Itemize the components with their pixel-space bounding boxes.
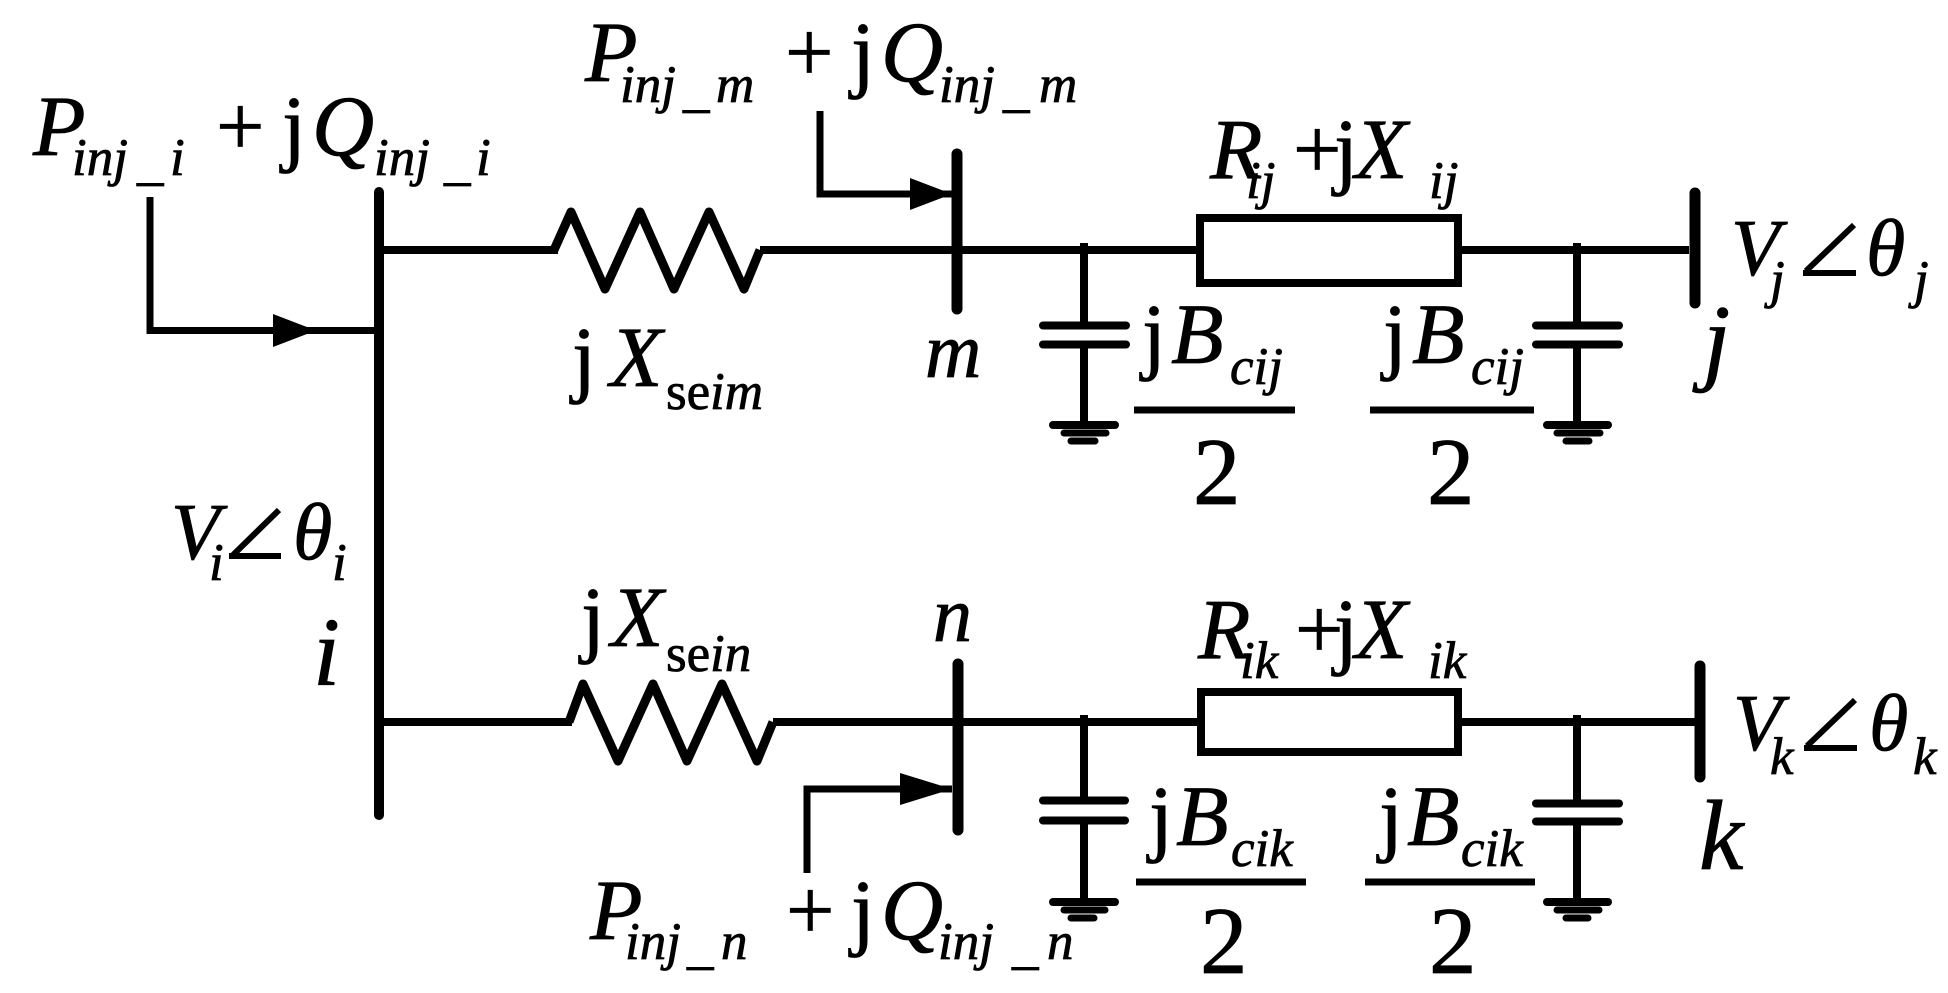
svg-text:Q: Q <box>312 78 374 174</box>
svg-text:_: _ <box>1011 917 1039 975</box>
capacitor jBcik/2 right (shunt, bottom branch) <box>1536 715 1619 898</box>
svg-text:n: n <box>721 913 748 971</box>
svg-text:X: X <box>1352 101 1411 197</box>
injection arrow into bus i (Pinj_i) <box>150 197 374 347</box>
label n (bus n) <box>933 571 972 658</box>
resistor jXsein (series reactance, bottom branch zigzag) <box>569 684 773 761</box>
svg-text:i: i <box>209 534 224 592</box>
svg-text:inj: inj <box>938 913 994 971</box>
svg-text:_: _ <box>1002 60 1030 118</box>
label j (bus j) <box>1692 286 1730 394</box>
wire bus i to top resistor <box>379 246 558 254</box>
svg-text:inj: inj <box>72 129 128 187</box>
label Rik+jXik <box>1197 581 1468 690</box>
label jBcik/2 right fraction <box>1365 768 1535 993</box>
label Vj angle theta j <box>1731 205 1929 309</box>
svg-text:_: _ <box>686 917 714 975</box>
injection arrow into bus m (Pinj_m) <box>820 111 952 210</box>
svg-text:θ: θ <box>1869 680 1908 768</box>
svg-text:in: in <box>710 625 751 683</box>
svg-text:k: k <box>1913 728 1938 786</box>
line impedance box Rij+jXij <box>1200 218 1458 283</box>
svg-text:B: B <box>1171 286 1224 382</box>
svg-text:X: X <box>607 309 666 405</box>
svg-text:ik: ik <box>1240 632 1280 690</box>
ground (top-right shunt capacitor) <box>1547 425 1608 441</box>
svg-text:cik: cik <box>1461 820 1524 878</box>
svg-text:B: B <box>1176 768 1229 864</box>
svg-text:cik: cik <box>1231 820 1294 878</box>
svg-text:j: j <box>1380 286 1407 382</box>
svg-text:m: m <box>716 56 754 114</box>
label Pinj_i + jQinj_i <box>32 78 491 191</box>
svg-text:2: 2 <box>1200 888 1248 993</box>
label jXseim <box>569 309 763 421</box>
svg-text:j: j <box>1376 768 1403 864</box>
svg-text:+: + <box>216 78 265 174</box>
ground (top-left shunt capacitor) <box>1053 425 1115 441</box>
svg-text:ik: ik <box>1428 632 1468 690</box>
svg-text:cij: cij <box>1230 338 1283 396</box>
svg-text:Q: Q <box>881 862 943 958</box>
bus n (vertical bar) <box>953 664 964 830</box>
bus m (vertical bar) <box>952 154 963 309</box>
svg-text:j: j <box>848 862 875 958</box>
svg-text:2: 2 <box>1427 419 1475 525</box>
svg-text:j: j <box>848 4 875 100</box>
svg-text:k: k <box>1699 780 1745 891</box>
ground (bottom-left shunt capacitor) <box>1053 902 1115 918</box>
bus j (vertical bar) <box>1690 193 1701 303</box>
svg-text:j: j <box>1139 286 1166 382</box>
label Rij+jXij <box>1209 101 1458 210</box>
svg-text:_: _ <box>443 133 471 191</box>
svg-text:inj: inj <box>374 129 430 187</box>
wire resistor to box Rij (through node m and shunt node) <box>760 246 1200 254</box>
capacitor jBcik/2 left (shunt, bottom branch) <box>1043 715 1125 898</box>
svg-text:B: B <box>1407 768 1460 864</box>
svg-text:se: se <box>666 363 710 421</box>
svg-text:i: i <box>313 599 340 706</box>
svg-text:ij: ij <box>1429 152 1458 210</box>
svg-text:j: j <box>1331 581 1358 677</box>
svg-text:n: n <box>933 571 972 658</box>
wire box Rik to bus k (through shunt node) <box>1458 718 1695 726</box>
label Pinj_m + jQinj_m <box>584 4 1077 118</box>
svg-text:inj: inj <box>625 913 681 971</box>
svg-text:j: j <box>279 78 306 174</box>
label Vi angle theta i <box>171 489 347 592</box>
wire resistor to box Rik (through node n and shunt node) <box>773 718 1201 726</box>
line impedance box Rik+jXik <box>1201 692 1458 752</box>
svg-text:X: X <box>1352 581 1411 677</box>
resistor jXseim (series reactance, top branch zigzag) <box>554 212 760 289</box>
svg-text:ij: ij <box>1246 152 1275 210</box>
svg-text:B: B <box>1412 286 1465 382</box>
label jBcij/2 left fraction <box>1134 286 1295 525</box>
label jBcij/2 right fraction <box>1370 286 1534 525</box>
svg-text:+: + <box>785 4 834 100</box>
capacitor jBcij/2 left (shunt, top branch) <box>1043 243 1126 421</box>
label jXsein <box>578 569 751 683</box>
svg-text:m: m <box>925 307 981 394</box>
svg-text:j: j <box>1146 768 1173 864</box>
svg-text:θ: θ <box>1866 205 1905 293</box>
wire box Rij to bus j (through shunt node) <box>1458 246 1689 254</box>
label jBcik/2 left fraction <box>1136 768 1306 993</box>
svg-text:j: j <box>1331 101 1358 197</box>
ground (bottom-right shunt capacitor) <box>1547 902 1608 918</box>
svg-text:i: i <box>170 129 185 187</box>
svg-text:_: _ <box>136 133 164 191</box>
svg-text:i: i <box>332 534 347 592</box>
svg-text:inj: inj <box>939 56 995 114</box>
svg-text:2: 2 <box>1429 888 1477 993</box>
svg-text:j: j <box>569 309 596 405</box>
svg-text:_: _ <box>682 60 710 118</box>
svg-text:θ: θ <box>293 489 332 577</box>
svg-text:k: k <box>1770 728 1795 786</box>
label Vk angle theta k <box>1733 680 1938 786</box>
bus i (vertical bus bar) <box>374 192 384 815</box>
label m (bus m) <box>925 307 981 394</box>
capacitor jBcij/2 right (shunt, top branch) <box>1536 243 1619 421</box>
svg-text:inj: inj <box>620 56 676 114</box>
injection arrow into bus n (Pinj_n) <box>807 773 952 873</box>
label Pinj_n + jQinj_n <box>589 862 1074 975</box>
svg-text:2: 2 <box>1193 419 1241 525</box>
bus k (vertical bar) <box>1695 666 1706 777</box>
svg-text:X: X <box>608 569 667 665</box>
svg-text:se: se <box>666 625 710 683</box>
svg-text:i: i <box>476 129 491 187</box>
label k (bus k) <box>1699 780 1745 891</box>
svg-text:n: n <box>1047 913 1074 971</box>
svg-text:Q: Q <box>881 4 943 100</box>
wire bus i to bottom resistor <box>379 718 572 726</box>
svg-text:+: + <box>786 862 835 958</box>
svg-text:cij: cij <box>1471 338 1524 396</box>
svg-text:im: im <box>710 363 763 421</box>
svg-text:m: m <box>1039 56 1077 114</box>
label i (bus i) <box>313 599 340 706</box>
svg-text:j: j <box>578 569 605 665</box>
